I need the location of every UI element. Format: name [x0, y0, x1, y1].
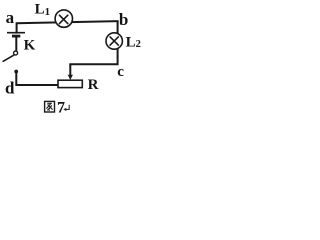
- lamp L1 cross: [59, 15, 67, 23]
- battery cell: long positive plate: [7, 32, 25, 34]
- lamp L2 circle: [106, 33, 122, 49]
- switch lower terminal dot: [14, 70, 18, 74]
- svg-text:a: a: [6, 8, 15, 27]
- rheostat slider arrowhead: [68, 75, 73, 80]
- switch K pivot circle: [14, 51, 18, 55]
- wire top: a corner to b corner: [17, 21, 118, 32]
- svg-text:c: c: [117, 64, 124, 80]
- caption glyph 图 (drawn): [45, 101, 55, 112]
- rheostat R body: [58, 80, 82, 87]
- wire battery to switch: [15, 38, 17, 51]
- svg-text:b: b: [119, 10, 128, 29]
- svg-text:7: 7: [57, 99, 65, 116]
- svg-text:K: K: [24, 38, 36, 54]
- svg-text:d: d: [5, 79, 15, 98]
- svg-text:R: R: [88, 77, 99, 93]
- wire bottom-left: d corner to rheostat: [16, 72, 58, 85]
- lamp L2 cross: [110, 37, 118, 45]
- rheostat slider stem: [69, 64, 71, 75]
- battery cell: short thick negative plate: [12, 35, 20, 38]
- wire right: b corner down to c corner: [70, 22, 117, 65]
- lamp L1 circle: [55, 10, 72, 27]
- switch K arm (open): [3, 55, 14, 61]
- caption return mark (drawn): [65, 105, 69, 110]
